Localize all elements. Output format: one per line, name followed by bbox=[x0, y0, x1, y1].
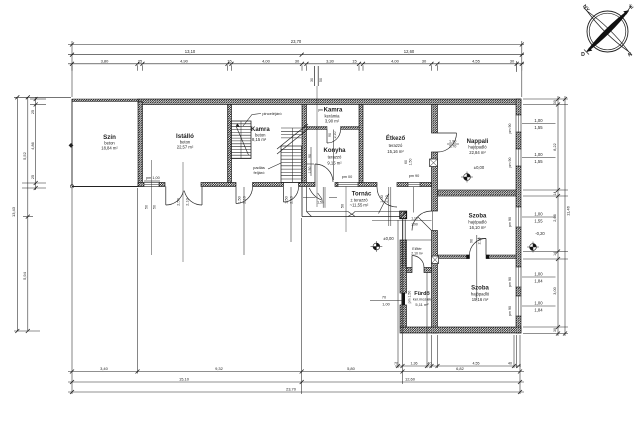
svg-text:4,00: 4,00 bbox=[391, 58, 400, 63]
svg-text:18,84 m²: 18,84 m² bbox=[101, 145, 118, 150]
svg-text:70: 70 bbox=[394, 362, 398, 366]
Tornac floor edge inner b bbox=[355, 211, 400, 213]
window: Furdo west window (closed, dark) bbox=[402, 293, 406, 305]
svg-text:2,10: 2,10 bbox=[478, 238, 482, 245]
svg-text:-0,20: -0,20 bbox=[535, 231, 545, 236]
svg-text:1,00: 1,00 bbox=[380, 195, 384, 202]
svg-text:15,10: 15,10 bbox=[179, 377, 190, 382]
compass arrowhead SW tip bbox=[587, 47, 593, 51]
wall: south wall of north wing seg2 bbox=[201, 183, 236, 187]
svg-text:25: 25 bbox=[31, 175, 35, 179]
wall face line across door bbox=[431, 211, 433, 231]
svg-text:2,10: 2,10 bbox=[333, 132, 337, 139]
Tornac floor edge inner a bbox=[307, 211, 349, 213]
svg-text:3,90 m²: 3,90 m² bbox=[325, 118, 340, 123]
svg-text:15,16 m²: 15,16 m² bbox=[387, 149, 404, 154]
svg-text:50: 50 bbox=[153, 205, 157, 209]
compass arrowhead NE tip bbox=[623, 10, 629, 14]
svg-text:8,22: 8,22 bbox=[553, 143, 557, 150]
Tornac floor edge outer bbox=[302, 216, 400, 218]
dim line Konyha window bbox=[345, 187, 347, 233]
svg-text:pm 1,50: pm 1,50 bbox=[408, 291, 412, 304]
wall: east exterior wall seg4 bbox=[516, 287, 521, 296]
svg-text:14: 14 bbox=[553, 252, 557, 256]
wall: east exterior wall seg1 bbox=[516, 132, 521, 149]
marker on Szin west wall bbox=[69, 143, 74, 148]
right extension lines bbox=[523, 98, 568, 100]
svg-text:13,10: 13,10 bbox=[185, 49, 196, 54]
window: Szoba east window bbox=[516, 207, 521, 227]
svg-text:pinceléjáró: pinceléjáró bbox=[262, 111, 282, 116]
svg-text:2,10: 2,10 bbox=[186, 198, 190, 205]
dim line 13,43 left bbox=[16, 97, 18, 331]
wall: Kamra south partition (right part) bbox=[341, 127, 360, 130]
svg-text:terazzó: terazzó bbox=[328, 155, 342, 160]
svg-text:~11,55 m²: ~11,55 m² bbox=[350, 202, 369, 207]
dim row room widths top bbox=[68, 63, 524, 65]
svg-text:1,50: 1,50 bbox=[317, 201, 324, 205]
svg-text:90: 90 bbox=[470, 239, 474, 243]
svg-text:1,90: 1,90 bbox=[411, 223, 418, 227]
wall: south wall of north wing seg8 bbox=[420, 183, 432, 187]
svg-text:3,40: 3,40 bbox=[100, 366, 109, 371]
svg-text:4,00: 4,00 bbox=[262, 58, 271, 63]
wall: south wall of north wing seg5 bbox=[335, 183, 338, 187]
svg-text:2,10: 2,10 bbox=[290, 196, 294, 203]
svg-text:Konyha: Konyha bbox=[323, 148, 346, 154]
stair: pincelejaro (to cellar) bbox=[231, 121, 251, 159]
wall: stairhall/Konyha partition bbox=[302, 105, 307, 183]
svg-text:40: 40 bbox=[428, 362, 432, 366]
svg-text:30: 30 bbox=[310, 78, 314, 82]
svg-text:terazzó: terazzó bbox=[389, 143, 403, 148]
svg-text:4,55: 4,55 bbox=[472, 58, 481, 63]
wall: north wall of Szin (thin) bbox=[72, 99, 138, 102]
door: corridor-Szoba door bbox=[412, 211, 432, 231]
svg-text:1,55: 1,55 bbox=[534, 159, 543, 164]
wall: Nappali-corridor west wall bbox=[432, 152, 438, 211]
svg-text:14: 14 bbox=[553, 192, 557, 196]
dim line 5,52 / 5,94 left bbox=[27, 97, 29, 331]
wall: Konyha-Etkezo partition bbox=[359, 105, 363, 183]
svg-text:2,10: 2,10 bbox=[243, 196, 247, 203]
svg-text:2,10 m²: 2,10 m² bbox=[411, 252, 423, 256]
svg-text:pm 90: pm 90 bbox=[409, 174, 420, 178]
Tornac corner step mark left bbox=[307, 212, 312, 217]
svg-text:1,55: 1,55 bbox=[534, 125, 543, 130]
wall: corridor/Furdo east wall bbox=[432, 231, 438, 334]
wall: west wall of east wing upper bbox=[400, 240, 407, 293]
svg-text:1,90: 1,90 bbox=[449, 140, 456, 144]
wall: south wall of north wing seg0 bbox=[138, 183, 144, 187]
wall: south wall of north wing seg3 bbox=[253, 183, 284, 187]
svg-text:pm 90: pm 90 bbox=[508, 277, 512, 287]
door: Konyha door leaf (opens into Konyha) bbox=[315, 164, 333, 182]
window: Nappali east window 2 bbox=[516, 149, 521, 166]
wall: Szin south wall (thin) bbox=[72, 186, 138, 188]
door: stairhall south door 2 bbox=[284, 187, 299, 202]
window: Istallo south window bbox=[144, 183, 159, 187]
wall: Kamra south partition (left part) bbox=[307, 127, 328, 130]
svg-text:12,60: 12,60 bbox=[405, 377, 416, 382]
door: stairhall south door 1 bbox=[236, 187, 253, 204]
wall: south wall of north wing seg6 bbox=[358, 183, 377, 187]
svg-text:9,15 m²: 9,15 m² bbox=[327, 161, 342, 166]
svg-text:30: 30 bbox=[295, 58, 300, 63]
dim row 13,10 / 12,60 top bbox=[68, 54, 524, 56]
svg-text:±0,00: ±0,00 bbox=[474, 165, 485, 170]
dim chain right inner bbox=[557, 96, 559, 336]
svg-text:1,00: 1,00 bbox=[534, 152, 543, 157]
top extension lines bbox=[71, 41, 73, 97]
svg-text:1,00: 1,00 bbox=[534, 271, 543, 276]
compass NE-SW black spindle bbox=[587, 11, 629, 52]
wall: Szin west wall (thin) bbox=[71, 99, 73, 187]
svg-text:1,10: 1,10 bbox=[411, 216, 418, 220]
stair: padlas feljaro (to attic) bbox=[277, 124, 308, 183]
svg-text:70: 70 bbox=[382, 296, 386, 300]
door width dim line left bbox=[303, 197, 316, 199]
door width dim line right bbox=[329, 197, 337, 199]
door leaf diagonal bbox=[379, 194, 389, 214]
svg-text:8,15 m²: 8,15 m² bbox=[252, 137, 267, 142]
svg-text:hajópadló: hajópadló bbox=[468, 145, 487, 150]
svg-text:1,50: 1,50 bbox=[308, 167, 312, 174]
compass NW-SE spindle outline bbox=[587, 11, 629, 52]
Furdo west window dim bbox=[370, 300, 402, 302]
svg-text:5,80: 5,80 bbox=[347, 366, 356, 371]
svg-text:5,94: 5,94 bbox=[22, 271, 27, 280]
svg-text:pm 00: pm 00 bbox=[342, 175, 353, 179]
dim line through Istallo window bbox=[150, 160, 152, 255]
svg-text:30: 30 bbox=[553, 100, 557, 104]
door jamb double line b bbox=[390, 187, 392, 226]
window: Konyha south window (pm 00) bbox=[338, 183, 358, 187]
dim line through corridor door bbox=[372, 220, 432, 222]
window: hall south window (pm 90) bbox=[408, 183, 420, 187]
svg-text:1,36: 1,36 bbox=[411, 362, 418, 366]
svg-text:3,00: 3,00 bbox=[553, 287, 557, 294]
Tornac west edge inner bbox=[306, 187, 308, 212]
svg-text:90: 90 bbox=[308, 154, 312, 158]
wall: Furdo north wall right bbox=[424, 268, 432, 273]
svg-text:30: 30 bbox=[553, 328, 557, 332]
wall: vestibule north thin line bbox=[405, 239, 431, 241]
wall: Etkezo/Nappali wall upper pier bbox=[432, 105, 438, 134]
wall: Szin/Istallo partition bbox=[138, 102, 143, 187]
wall: east exterior wall seg0 bbox=[516, 99, 521, 115]
wall: north exterior wall (main) bbox=[138, 99, 521, 105]
svg-text:1,00: 1,00 bbox=[534, 211, 543, 216]
svg-text:15: 15 bbox=[352, 58, 357, 63]
svg-text:hajópadló: hajópadló bbox=[471, 292, 490, 297]
window: Szoba2 east window 2 bbox=[516, 296, 521, 316]
extension below hall window bbox=[413, 187, 415, 213]
wall: east exterior wall seg5 bbox=[516, 316, 521, 333]
door centre dim line a bbox=[322, 187, 324, 208]
svg-text:22,84 m²: 22,84 m² bbox=[469, 150, 486, 155]
svg-text:15: 15 bbox=[227, 58, 232, 63]
svg-text:50: 50 bbox=[319, 78, 323, 82]
svg-text:1,00: 1,00 bbox=[534, 118, 543, 123]
svg-text:50: 50 bbox=[340, 204, 344, 208]
svg-text:12,60: 12,60 bbox=[404, 49, 415, 54]
leader to padlas feljaro label bbox=[268, 163, 281, 169]
svg-text:1,50: 1,50 bbox=[409, 159, 413, 166]
level marker Tornac bbox=[373, 243, 380, 250]
svg-text:1,00: 1,00 bbox=[382, 302, 389, 306]
door leaf diagonal corridor bbox=[418, 217, 432, 231]
wall: west wall of east wing lower bbox=[400, 305, 407, 327]
svg-text:pm 90: pm 90 bbox=[508, 217, 512, 227]
dim row small bottom right wing bbox=[395, 365, 521, 367]
svg-text:90: 90 bbox=[328, 133, 332, 137]
svg-text:±0,00: ±0,00 bbox=[383, 236, 394, 241]
porch column (dark) at Tornac east end bbox=[400, 211, 407, 218]
wall: Szoba/Szoba partition east part bbox=[486, 255, 516, 259]
door: Kamra-Konyha door bbox=[327, 130, 341, 144]
svg-text:50: 50 bbox=[145, 205, 149, 209]
svg-text:4,90: 4,90 bbox=[180, 58, 189, 63]
level marker Nappali bbox=[464, 174, 471, 181]
dim row 23,70 top bbox=[68, 44, 524, 46]
svg-text:30: 30 bbox=[510, 58, 515, 63]
svg-text:25: 25 bbox=[138, 58, 143, 63]
svg-text:pm: pm bbox=[318, 108, 323, 112]
door: Etkezo-Nappali opening bbox=[438, 133, 457, 152]
leader line to pincelejaro label bbox=[243, 114, 261, 127]
chimney flue at Etkezo/Nappali wall bbox=[430, 159, 438, 167]
dim row 23,70 bottom bbox=[68, 391, 524, 393]
svg-text:2,66: 2,66 bbox=[553, 214, 557, 221]
svg-text:5,52: 5,52 bbox=[22, 151, 27, 160]
bottom extension lines bbox=[71, 188, 73, 394]
svg-text:23,70: 23,70 bbox=[286, 387, 297, 392]
svg-text:16,10 m²: 16,10 m² bbox=[469, 225, 486, 230]
svg-text:hajópadló: hajópadló bbox=[468, 220, 487, 225]
wall: south wall of east wing bbox=[400, 327, 521, 333]
svg-text:D: D bbox=[581, 52, 585, 58]
svg-text:13,43: 13,43 bbox=[11, 206, 16, 217]
left extension lines bbox=[14, 96, 71, 98]
svg-text:2,10: 2,10 bbox=[385, 195, 389, 202]
dim row 3,40 9,32 5,80 6,82 bottom bbox=[68, 371, 524, 373]
wall: Szoba/Szoba partition west part bbox=[438, 255, 470, 259]
window: Szoba2 east window 1 bbox=[516, 267, 521, 287]
svg-text:1,00: 1,00 bbox=[534, 300, 543, 305]
svg-text:ker.mozaik: ker.mozaik bbox=[413, 298, 431, 302]
door: Konyha-Tornac door bbox=[309, 188, 322, 200]
dim row 15,10 / 12,60 bottom bbox=[68, 381, 524, 383]
svg-text:pm 1,00: pm 1,00 bbox=[146, 176, 160, 180]
svg-text:60: 60 bbox=[404, 160, 408, 164]
door: Tornac-hall entrance door bbox=[377, 187, 397, 207]
svg-text:1,50: 1,50 bbox=[238, 196, 242, 203]
dim line through Istallo door bbox=[182, 162, 184, 262]
svg-text:pm 90: pm 90 bbox=[508, 124, 512, 134]
compass circles bbox=[587, 11, 628, 52]
section line marks below top dims bbox=[314, 66, 316, 86]
door jamb double line a bbox=[388, 187, 390, 226]
wall: Istallo/Kamra partition bbox=[228, 105, 232, 183]
wall: east exterior wall seg3 bbox=[516, 227, 521, 267]
svg-text:6,82: 6,82 bbox=[456, 366, 465, 371]
wall: east exterior wall seg2 bbox=[516, 166, 521, 207]
svg-text:22,57 m²: 22,57 m² bbox=[177, 145, 194, 150]
svg-text:11,46: 11,46 bbox=[566, 205, 571, 215]
svg-text:2,50: 2,50 bbox=[177, 198, 181, 205]
svg-text:40: 40 bbox=[508, 362, 512, 366]
svg-text:3,80: 3,80 bbox=[101, 58, 110, 63]
svg-text:30: 30 bbox=[422, 58, 427, 63]
svg-text:23,70: 23,70 bbox=[291, 39, 302, 44]
section line through Kamra/Konyha bbox=[316, 86, 318, 207]
svg-text:1,84: 1,84 bbox=[534, 308, 543, 313]
svg-text:pm 90: pm 90 bbox=[508, 158, 512, 168]
svg-text:4,55: 4,55 bbox=[473, 362, 480, 366]
compass tip ticks bbox=[627, 6, 632, 13]
right window dimension fractions bbox=[522, 123, 556, 125]
Tornac step break symbol bbox=[348, 212, 355, 215]
svg-text:Előtér: Előtér bbox=[412, 247, 422, 251]
wall: Furdo north wall left bbox=[407, 268, 413, 273]
wall: Nappali/Szoba partition bbox=[438, 190, 517, 196]
svg-text:3,30: 3,30 bbox=[326, 58, 335, 63]
wall: south wall of north wing seg7 bbox=[397, 183, 408, 187]
svg-text:Fürdő: Fürdő bbox=[414, 291, 430, 297]
wall: south wall of north wing seg1 bbox=[159, 183, 165, 187]
svg-text:1,55: 1,55 bbox=[534, 219, 543, 224]
svg-text:Étkező: Étkező bbox=[386, 134, 406, 142]
door: Furdo door bbox=[412, 256, 424, 268]
svg-text:25: 25 bbox=[31, 110, 35, 114]
svg-text:1,84: 1,84 bbox=[534, 279, 543, 284]
door: Istallo double door bbox=[166, 191, 184, 205]
svg-text:2,70: 2,70 bbox=[449, 145, 456, 149]
wall: vestibule thin west wall bbox=[402, 220, 404, 268]
door centre dim line b bbox=[324, 187, 326, 208]
svg-text:15,16 m²: 15,16 m² bbox=[472, 297, 489, 302]
svg-text:pm 90: pm 90 bbox=[508, 306, 512, 316]
svg-text:feljáró: feljáró bbox=[254, 170, 266, 175]
dim line 25 4,86 25 left bbox=[35, 97, 37, 190]
dim line 11,46 right bbox=[564, 96, 566, 336]
level marker east of building bbox=[530, 244, 537, 251]
window: Nappali east window 1 bbox=[516, 115, 521, 132]
Tornac west edge outer bbox=[301, 187, 303, 217]
wall: south wall of north wing seg4 bbox=[299, 183, 316, 187]
svg-text:1,50: 1,50 bbox=[285, 196, 289, 203]
door: Szoba-Szoba door bbox=[470, 239, 487, 256]
door jamb blocks Szoba/Szoba bbox=[466, 255, 469, 259]
chimney flue at Furdo/Szoba wall bbox=[432, 256, 439, 264]
door leaf diagonal Konyha door bbox=[318, 193, 323, 199]
svg-text:4,86: 4,86 bbox=[31, 142, 35, 149]
svg-text:9,32: 9,32 bbox=[215, 366, 224, 371]
